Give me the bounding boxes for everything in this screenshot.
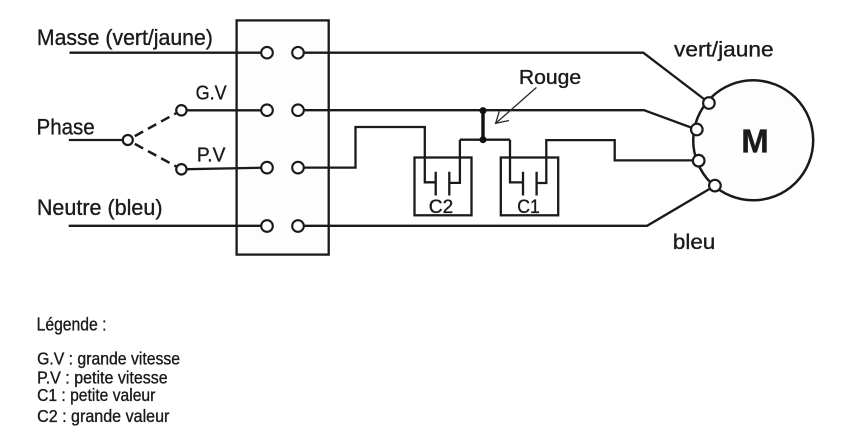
svg-text:Légende :: Légende : (37, 314, 107, 334)
svg-text:P.V: P.V (197, 145, 226, 167)
svg-text:M: M (741, 122, 769, 159)
svg-text:vert/jaune: vert/jaune (674, 37, 774, 61)
svg-text:Neutre (bleu): Neutre (bleu) (37, 195, 163, 220)
svg-text:C1: C1 (517, 196, 540, 218)
svg-text:C2 : grande valeur: C2 : grande valeur (37, 406, 169, 426)
svg-text:C2: C2 (429, 196, 454, 218)
svg-text:Phase: Phase (37, 114, 95, 139)
svg-text:G.V : grande vitesse: G.V : grande vitesse (37, 349, 180, 369)
svg-text:C1 : petite valeur: C1 : petite valeur (37, 385, 155, 405)
svg-text:Masse (vert/jaune): Masse (vert/jaune) (37, 25, 213, 50)
svg-text:G.V: G.V (196, 82, 228, 104)
svg-text:bleu: bleu (673, 230, 715, 254)
svg-text:Rouge: Rouge (519, 67, 581, 89)
